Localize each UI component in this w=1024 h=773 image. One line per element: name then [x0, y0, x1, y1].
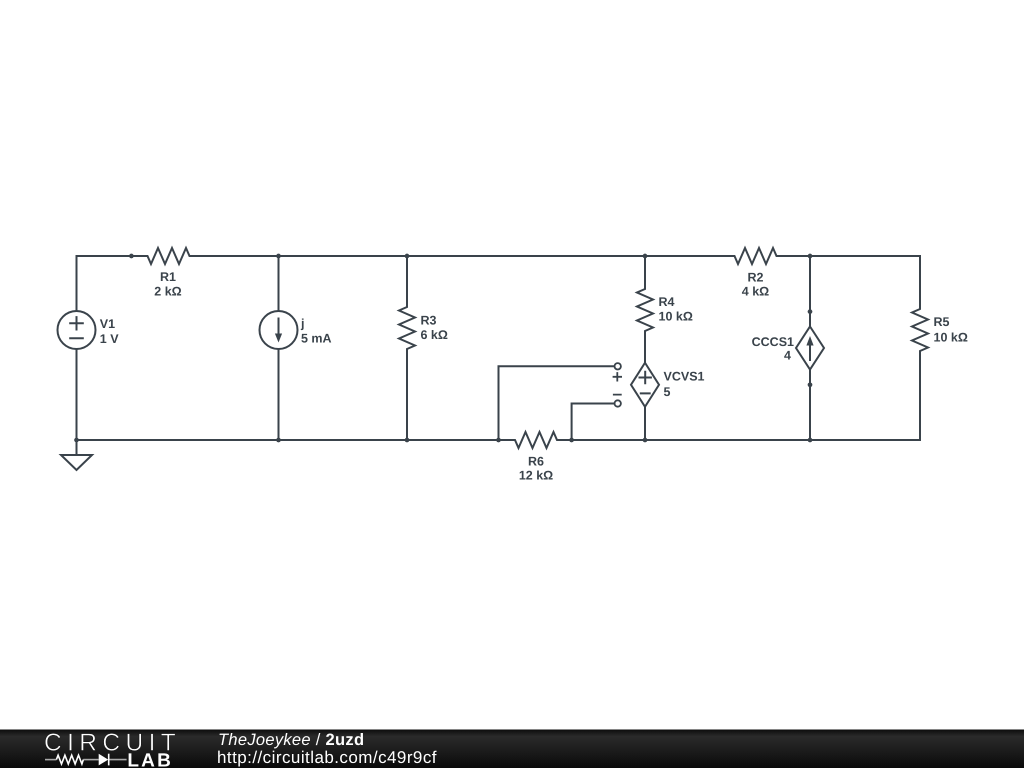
- svg-text:2 kΩ: 2 kΩ: [154, 284, 181, 298]
- svg-text:12 kΩ: 12 kΩ: [519, 469, 553, 483]
- svg-text:R6: R6: [528, 455, 544, 469]
- svg-text:j: j: [300, 317, 304, 331]
- CCCS1 arrowhead: [806, 336, 813, 346]
- svg-text:R5: R5: [934, 315, 950, 329]
- CCCS1 terminal dots: [808, 309, 813, 314]
- VCVS1 control terminals: [615, 363, 621, 369]
- logo resistor-diode glyph: [45, 759, 127, 761]
- wire VCVS1 control -: [572, 404, 615, 441]
- svg-text:R3: R3: [421, 314, 437, 328]
- resistor R3: [399, 256, 415, 440]
- svg-text:R4: R4: [659, 295, 675, 309]
- svg-text:10 kΩ: 10 kΩ: [659, 310, 693, 324]
- svg-text:V1: V1: [100, 317, 115, 331]
- voltage source V1: [58, 311, 96, 349]
- wire top rail with R1 and R2 inline: [77, 248, 921, 264]
- wire VCVS1 control +: [499, 366, 615, 440]
- current source j: [260, 311, 298, 349]
- resistor R4: [637, 256, 653, 363]
- wire current source branch: [278, 256, 280, 311]
- svg-text:4: 4: [784, 349, 791, 363]
- resistor R5 with corner leads: [912, 256, 928, 440]
- wire VCVS1 bottom lead: [644, 407, 646, 440]
- svg-text:LAB: LAB: [127, 751, 173, 769]
- wire CCCS1 branch: [809, 256, 811, 327]
- junction node dots bottom rail: [74, 438, 79, 443]
- wire bottom rail with R6 inline: [77, 432, 921, 448]
- svg-text:6 kΩ: 6 kΩ: [421, 328, 448, 342]
- svg-text:4 kΩ: 4 kΩ: [742, 284, 769, 298]
- svg-text:R2: R2: [748, 271, 764, 285]
- svg-text:5 mA: 5 mA: [301, 332, 332, 346]
- ground: [61, 440, 92, 470]
- svg-text:R1: R1: [160, 270, 176, 284]
- VCVS1 diamond: [631, 363, 659, 407]
- CCCS1 diamond: [796, 327, 824, 370]
- svg-text:10 kΩ: 10 kΩ: [934, 331, 968, 345]
- svg-text:5: 5: [664, 385, 671, 399]
- svg-text:VCVS1: VCVS1: [664, 370, 705, 384]
- junction node dots top rail: [129, 254, 134, 259]
- current source j arrowhead: [275, 334, 282, 343]
- wire left branch V1: [76, 256, 78, 311]
- svg-text:1 V: 1 V: [100, 332, 119, 346]
- svg-text:CCCS1: CCCS1: [752, 335, 794, 349]
- svg-text:http://circuitlab.com/c49r9cf: http://circuitlab.com/c49r9cf: [217, 748, 437, 767]
- svg-text:TheJoeykee / 2uzd: TheJoeykee / 2uzd: [218, 731, 364, 749]
